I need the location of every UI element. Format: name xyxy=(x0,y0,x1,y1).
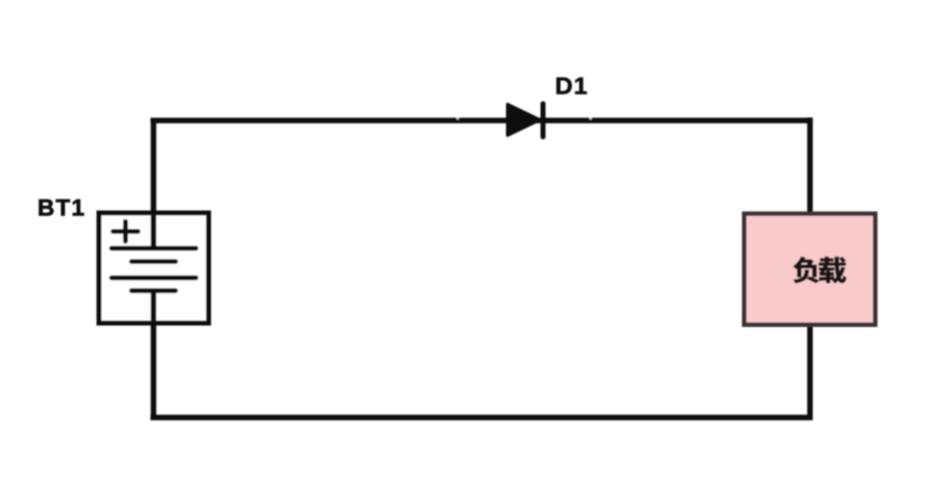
svg-text:D1: D1 xyxy=(555,73,588,100)
svg-text:BT1: BT1 xyxy=(38,195,86,221)
